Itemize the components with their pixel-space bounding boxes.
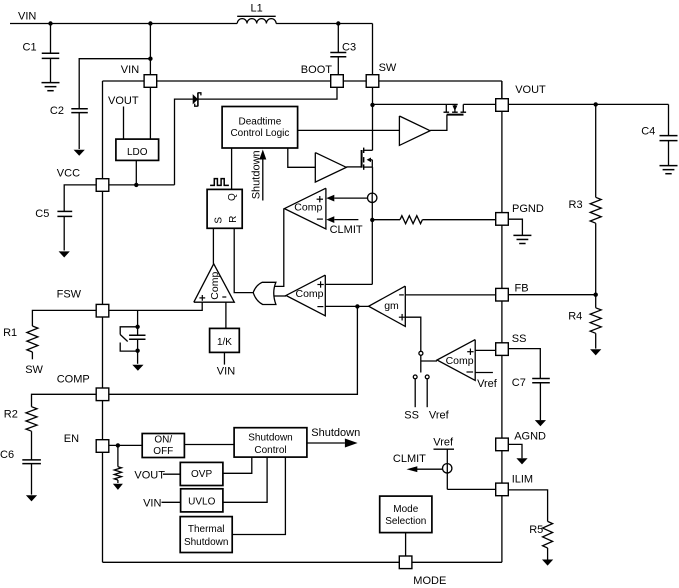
pin ILIM bbox=[496, 483, 509, 496]
svg-text:SW: SW bbox=[25, 364, 43, 376]
svg-text:C1: C1 bbox=[23, 41, 37, 53]
wire OVP to shutdown control bbox=[223, 457, 252, 473]
wire PMOS gate to driver bbox=[430, 115, 447, 131]
ground arrow under R4 bbox=[590, 349, 601, 355]
junction dot EN pulldown bbox=[116, 443, 120, 447]
svg-text:C7: C7 bbox=[512, 377, 526, 389]
node Shutdown input arrow to deadtime bbox=[262, 155, 264, 201]
svg-text:Comp: Comp bbox=[209, 272, 221, 300]
pin FSW bbox=[96, 304, 109, 317]
svg-text:VIN: VIN bbox=[121, 64, 139, 76]
svg-text:VOUT: VOUT bbox=[108, 95, 139, 107]
svg-text:Mode: Mode bbox=[393, 504, 418, 515]
svg-text:UVLO: UVLO bbox=[188, 497, 215, 508]
ground arrow under C6 bbox=[26, 495, 37, 501]
ground arrow AGND bbox=[516, 458, 527, 464]
current source I2 CLMIT bbox=[443, 464, 452, 473]
ground arrow under R5 bbox=[542, 560, 553, 566]
wire Comp1 + input from FSW bbox=[109, 302, 202, 310]
wire deadtime to upper driver bbox=[298, 129, 400, 131]
wire thermal to shutdown control bbox=[232, 457, 285, 534]
wire diode to BOOT bbox=[198, 88, 337, 99]
pin BOOT bbox=[331, 75, 344, 88]
ground earth under C1 bbox=[42, 82, 60, 84]
wire VIN pin to LDO bbox=[149, 87, 151, 139]
op-amp U2 upper gate driver bbox=[399, 116, 430, 145]
wire latch Q to deadtime bbox=[231, 148, 233, 189]
comparator Comp4 soft-start bbox=[437, 340, 475, 381]
wire gm - to FB bbox=[405, 294, 495, 296]
wire VOUT rail bbox=[508, 103, 668, 105]
clock pulse symbol bbox=[210, 179, 229, 186]
resistor Rsense bbox=[400, 216, 422, 224]
transistor Q2 low-side NMOS bbox=[361, 150, 363, 168]
svg-text:FB: FB bbox=[515, 283, 529, 295]
junction dot slope top bbox=[135, 325, 139, 329]
svg-text:Shutdown: Shutdown bbox=[184, 537, 228, 548]
wire FB pin to divider bbox=[508, 294, 595, 296]
svg-text:Shutdown: Shutdown bbox=[311, 427, 360, 439]
wire deadtime to lower driver bbox=[288, 148, 316, 167]
box Thermal Shutdown bbox=[180, 517, 232, 553]
junction dot C2 tap bbox=[148, 57, 152, 61]
svg-text:OVP: OVP bbox=[191, 469, 212, 480]
wire Comp4 + to SS pin bbox=[475, 349, 496, 351]
svg-text:VOUT: VOUT bbox=[515, 84, 546, 96]
junction dot COMP node bbox=[355, 304, 359, 308]
box UVLO bbox=[181, 489, 223, 512]
junction dot slope bottom bbox=[135, 349, 139, 353]
box U9 Shutdown Control bbox=[234, 428, 307, 457]
comparator Comp3 current limit bbox=[284, 188, 326, 229]
wire divider top bbox=[595, 104, 597, 197]
wire ILIM to R5 bbox=[508, 490, 547, 522]
wire mode selection to MODE pin bbox=[405, 533, 407, 556]
pin COMP bbox=[96, 388, 109, 401]
wire VIN rail down to VIN pin bbox=[149, 24, 151, 82]
svg-text:COMP: COMP bbox=[57, 374, 90, 386]
wire NMOS gate to lower driver bbox=[346, 166, 361, 168]
wire VOUT pin drop from top edge bbox=[501, 81, 503, 105]
wire VCC pin left to C5 bbox=[64, 185, 96, 212]
svg-text:SS: SS bbox=[404, 409, 419, 421]
svg-text:PGND: PGND bbox=[512, 203, 544, 215]
junction dot VIN branch bbox=[148, 21, 152, 25]
svg-text:SW: SW bbox=[379, 62, 397, 74]
transistor Q1 high-side PMOS pass bbox=[445, 104, 447, 112]
svg-text:MODE: MODE bbox=[413, 575, 446, 587]
svg-text:gm: gm bbox=[384, 300, 399, 312]
svg-text:S: S bbox=[213, 217, 224, 224]
svg-text:FSW: FSW bbox=[57, 288, 82, 300]
junction dot divider tap bbox=[594, 102, 598, 106]
ground earth under C4 bbox=[660, 165, 678, 167]
svg-text:SS: SS bbox=[512, 333, 527, 345]
wire VCC up to diode bbox=[175, 99, 193, 185]
svg-text:VIN: VIN bbox=[143, 498, 161, 510]
resistor EN pulldown bbox=[117, 445, 119, 466]
svg-text:Comp: Comp bbox=[446, 355, 474, 367]
diode D1 bootstrap schottky bbox=[193, 94, 198, 104]
junction dot sense node bbox=[370, 218, 374, 222]
pin VCC bbox=[96, 179, 109, 192]
wire VCC net bbox=[109, 184, 175, 186]
box U7 1/K bbox=[210, 328, 240, 352]
svg-text:R: R bbox=[228, 216, 239, 223]
svg-text:Comp: Comp bbox=[294, 201, 322, 213]
pin EN bbox=[96, 440, 109, 453]
svg-text:ILIM: ILIM bbox=[512, 474, 533, 486]
svg-text:CLMIT: CLMIT bbox=[330, 224, 363, 236]
svg-text:C2: C2 bbox=[50, 105, 64, 117]
wire Comp3 output to OR gate bbox=[275, 209, 284, 287]
switch S1 slope reset bbox=[120, 327, 137, 335]
junction dot C3 tap bbox=[336, 21, 340, 25]
wire PGND to ground bbox=[508, 219, 522, 235]
wire Comp2 output to OR gate bbox=[275, 295, 287, 297]
wire top rail right of L1 bbox=[276, 23, 372, 25]
wire ON/OFF to Shutdown Control bbox=[184, 444, 234, 446]
node CLMIT - comp3 minus input bbox=[326, 216, 334, 223]
svg-text:Shutdown: Shutdown bbox=[250, 150, 262, 199]
wire Comp3 + input from sense bbox=[326, 195, 334, 202]
current sense source I1 bbox=[371, 193, 373, 284]
svg-text:1/K: 1/K bbox=[217, 337, 232, 348]
switch contacts SS and Vref bbox=[413, 375, 417, 379]
svg-text:Q: Q bbox=[227, 193, 238, 201]
svg-text:CLMIT: CLMIT bbox=[393, 453, 426, 465]
wire OR output to latch R bbox=[234, 228, 253, 292]
svg-text:ON/: ON/ bbox=[154, 435, 172, 446]
svg-text:R1: R1 bbox=[3, 327, 17, 339]
wire Comp1 output to latch S bbox=[212, 228, 214, 263]
svg-text:C5: C5 bbox=[35, 208, 49, 220]
svg-text:OFF: OFF bbox=[153, 446, 173, 457]
op-amp U3 lower gate driver bbox=[315, 153, 346, 183]
svg-text:C6: C6 bbox=[0, 449, 14, 461]
box U6 Deadtime Control Logic bbox=[222, 107, 298, 149]
wire corner down to SW pin bbox=[372, 24, 374, 82]
svg-text:C4: C4 bbox=[641, 125, 655, 137]
comparator Comp2 PWM bbox=[286, 275, 325, 316]
junction dot SW node bbox=[370, 103, 374, 107]
svg-text:R4: R4 bbox=[568, 310, 582, 322]
ground arrow under C2 bbox=[74, 150, 85, 156]
box U8 LDO bbox=[116, 139, 159, 160]
junction dot FB node bbox=[594, 293, 598, 297]
svg-text:BOOT: BOOT bbox=[301, 64, 332, 76]
wire to ILIM pin bbox=[447, 488, 495, 490]
box OVP bbox=[180, 462, 223, 485]
wire FSW to R1 bbox=[32, 310, 96, 326]
wire R3 to FB bbox=[595, 223, 597, 295]
wire COMP node down to COMP pin bbox=[109, 306, 358, 394]
pin PGND bbox=[496, 213, 509, 226]
ground arrow slope bbox=[132, 365, 143, 371]
wire Comp1 - input to 1/K bbox=[225, 302, 227, 328]
svg-text:Deadtime: Deadtime bbox=[238, 117, 281, 128]
ground arrow under C5 bbox=[59, 251, 70, 257]
pin MODE bbox=[399, 556, 412, 569]
switch S2 soft-start select common contact bbox=[419, 351, 423, 355]
svg-text:VIN: VIN bbox=[217, 366, 235, 378]
wire gm + to switch bbox=[405, 317, 421, 372]
svg-text:R2: R2 bbox=[4, 408, 18, 420]
pin AGND bbox=[496, 438, 509, 451]
box ON/OFF bbox=[142, 434, 184, 458]
svg-text:Shutdown: Shutdown bbox=[248, 433, 292, 444]
wire EN to ON/OFF bbox=[109, 444, 142, 446]
op-amp gm error amplifier bbox=[369, 286, 406, 326]
wire LDO out to VCC bbox=[135, 160, 137, 185]
svg-text:Vref: Vref bbox=[429, 409, 450, 421]
node VIN to 1/K bbox=[223, 352, 225, 364]
ground earth at PGND bbox=[513, 234, 531, 236]
svg-text:VIN: VIN bbox=[18, 11, 36, 23]
svg-text:L1: L1 bbox=[251, 2, 263, 14]
junction dot C1 tap bbox=[48, 21, 52, 25]
capacitor slope comp bbox=[137, 327, 139, 336]
pin VOUT bbox=[496, 99, 509, 112]
node Vref comp4 minus bbox=[475, 372, 493, 374]
wire PMOS source to VOUT pin bbox=[463, 103, 495, 105]
svg-text:R5: R5 bbox=[529, 524, 543, 536]
wire Comp2 + input bbox=[325, 283, 372, 285]
pin VIN bbox=[144, 75, 157, 88]
svg-text:R3: R3 bbox=[569, 199, 583, 211]
svg-text:EN: EN bbox=[64, 433, 79, 445]
svg-text:LDO: LDO bbox=[127, 147, 148, 158]
svg-text:AGND: AGND bbox=[514, 431, 546, 443]
ground arrow EN bbox=[113, 484, 123, 490]
svg-text:Control Logic: Control Logic bbox=[230, 128, 289, 139]
svg-text:VCC: VCC bbox=[57, 168, 80, 180]
pin FB bbox=[496, 288, 509, 301]
IC boundary outline bbox=[103, 80, 502, 82]
OR gate U4 bbox=[253, 282, 276, 304]
node CLMIT output arrow bbox=[407, 466, 418, 472]
wire VIN top rail bbox=[10, 23, 237, 25]
pin SW bbox=[366, 75, 379, 88]
wire COMP pin to R2 bbox=[32, 394, 97, 406]
comparator Comp1 slope PWM bbox=[194, 264, 235, 302]
svg-text:Vref: Vref bbox=[477, 378, 498, 390]
wire SS pin to C7 bbox=[508, 349, 540, 379]
node Shutdown output bbox=[307, 442, 345, 444]
wire comp4 output clamp bbox=[421, 360, 437, 362]
ground arrow under C7 bbox=[535, 420, 546, 426]
pin SS bbox=[496, 343, 509, 356]
svg-text:Thermal: Thermal bbox=[188, 524, 225, 535]
junction dot LDO-VCC bbox=[134, 183, 138, 187]
latch U5 SR bbox=[207, 189, 242, 228]
wire SW node to PMOS left bbox=[373, 103, 458, 105]
wire slope cap branch bbox=[137, 310, 139, 326]
box Mode Selection bbox=[380, 496, 432, 532]
svg-text:Control: Control bbox=[254, 445, 286, 456]
wire UVLO to shutdown control bbox=[223, 457, 267, 502]
svg-text:Comp: Comp bbox=[296, 288, 324, 300]
svg-text:Selection: Selection bbox=[385, 516, 426, 527]
svg-text:VOUT: VOUT bbox=[134, 469, 165, 481]
wire AGND to ground bbox=[508, 444, 522, 458]
wire Comp2 - input to gm bbox=[325, 305, 368, 307]
wire SW node vertical bbox=[372, 81, 374, 150]
wire to C2 bbox=[79, 59, 150, 109]
svg-text:Vref: Vref bbox=[433, 437, 454, 449]
